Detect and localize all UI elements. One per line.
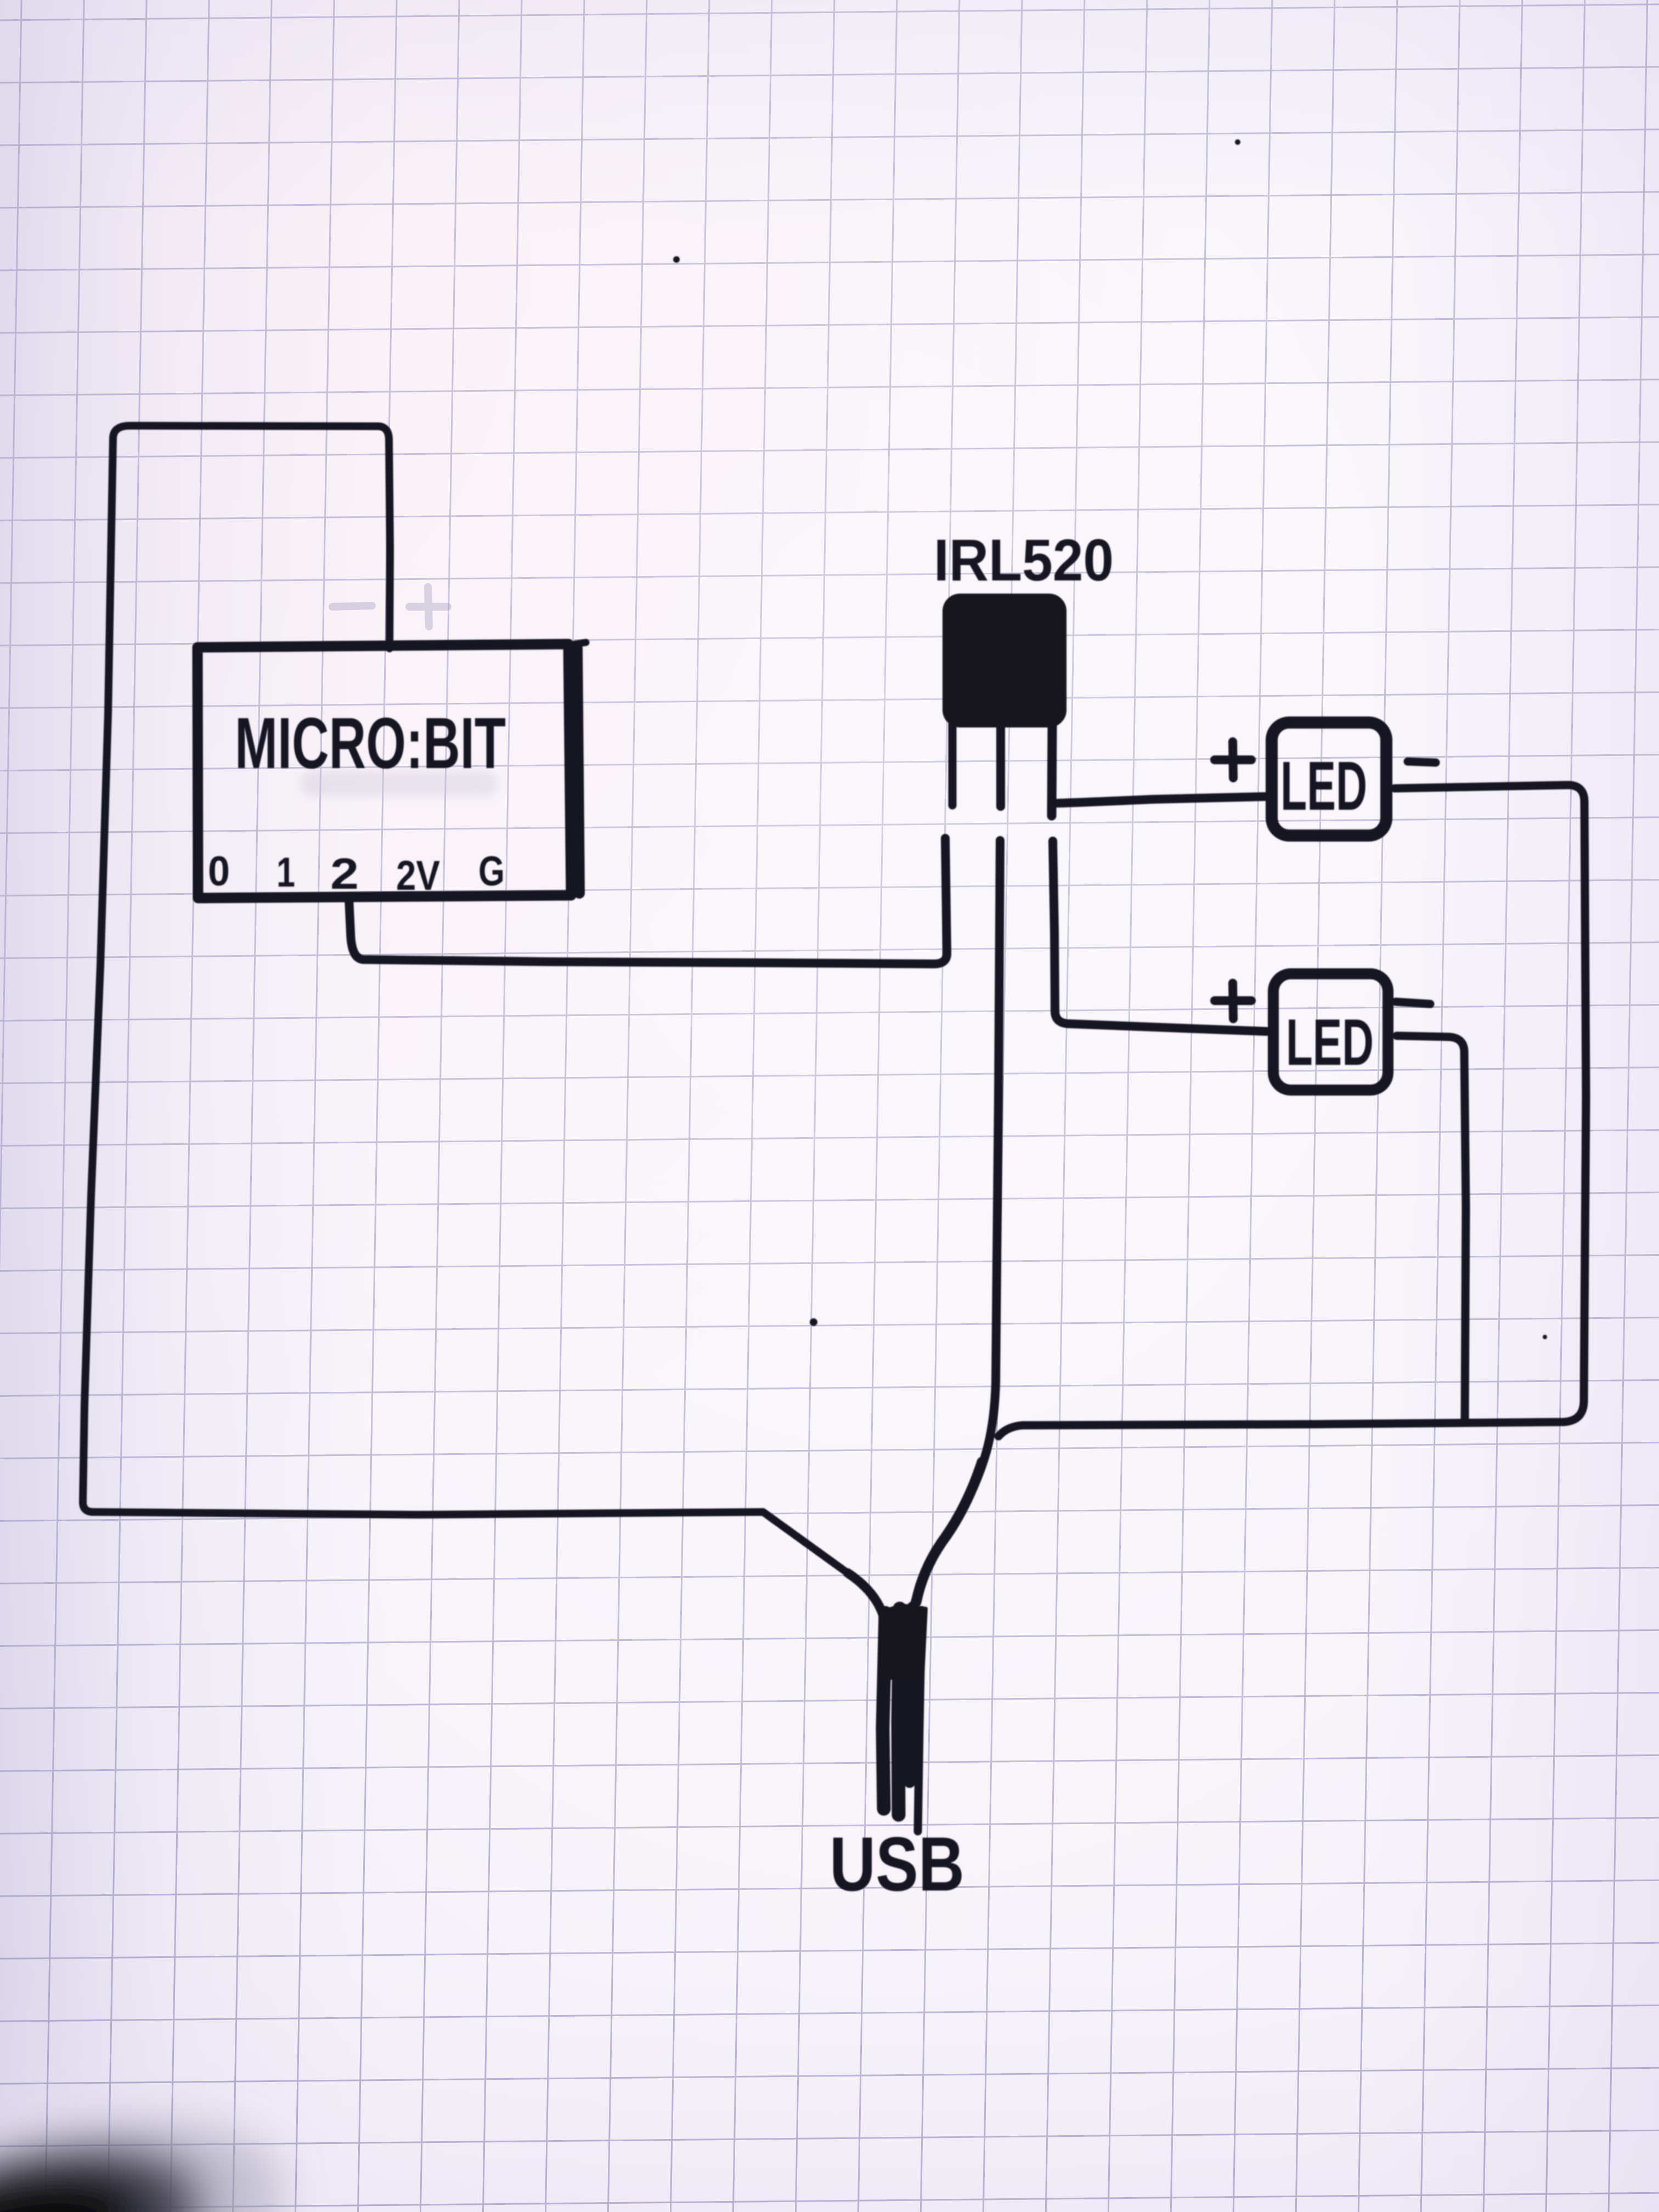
micro:bit box corner tick xyxy=(568,642,586,645)
ghost bleed-through minus xyxy=(332,587,448,627)
source leg upper segment xyxy=(996,725,1005,806)
ghost bleed-through plus xyxy=(409,587,448,627)
wire: micro:bit top pin loop, left rail down to USB xyxy=(83,426,856,1579)
svg-text:0: 0 xyxy=(208,848,230,895)
LED D2 box xyxy=(1273,974,1388,1090)
wire: source leg down to USB junction xyxy=(915,840,1000,1602)
micro:bit U1 box xyxy=(198,644,571,898)
drain leg upper segment xyxy=(1052,725,1052,816)
minus sign of D2 xyxy=(1396,1002,1430,1004)
shadow blob bottom-left xyxy=(0,2073,312,2212)
svg-text:2: 2 xyxy=(330,849,359,898)
transistor Q1 IRL520 body xyxy=(945,596,1064,725)
svg-text:MICRO:BIT: MICRO:BIT xyxy=(235,703,506,783)
plus sign of D1 xyxy=(1215,742,1251,778)
plus sign of D2 xyxy=(1215,983,1251,1019)
svg-text:2V: 2V xyxy=(396,853,440,899)
wire: pin 2 stub to gate xyxy=(349,838,947,964)
ink speck xyxy=(673,256,680,263)
LED D1 box xyxy=(1272,723,1386,836)
USB cable funnel left curve xyxy=(848,1573,883,1616)
wire: LED1 cathode right rail down and bottom return to junction xyxy=(998,785,1586,1436)
svg-text:IRL520: IRL520 xyxy=(934,527,1114,593)
USB cable bundle stroke 2 xyxy=(898,1609,900,1815)
USB cable bundle stroke 4 xyxy=(918,1610,922,1831)
USB cable bundle stroke 3 xyxy=(910,1607,913,1782)
svg-text:G: G xyxy=(478,848,505,895)
svg-text:LED: LED xyxy=(1280,747,1367,825)
minus sign of D1 xyxy=(1408,761,1436,763)
gate leg upper segment of Q1 xyxy=(949,724,957,805)
wire: drain to LED1 anode xyxy=(1058,797,1265,803)
ink speck xyxy=(810,1318,817,1326)
wire: drain lower segment to LED2 anode xyxy=(1053,841,1266,1031)
USB cable bundle stroke 1 xyxy=(883,1613,885,1809)
ink speck xyxy=(1543,1335,1547,1339)
ink speck xyxy=(1235,139,1240,145)
micro:bit box right edge double stroke xyxy=(577,648,579,893)
svg-text:USB: USB xyxy=(830,1821,964,1907)
svg-text:1: 1 xyxy=(276,849,295,896)
svg-text:LED: LED xyxy=(1286,1006,1374,1079)
wire: source leg thickened throat xyxy=(916,1462,982,1602)
ghost bleed-through word xyxy=(301,770,498,797)
USB cable bundle throat fill xyxy=(880,1605,926,1679)
ink drawing xyxy=(83,139,1586,1907)
wire: LED2 cathode down to bottom return xyxy=(1397,1036,1466,1422)
